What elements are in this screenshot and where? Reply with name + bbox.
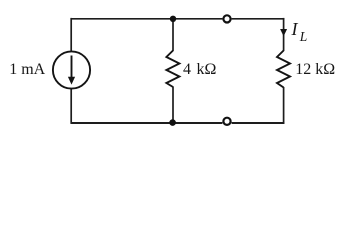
wire right branch upper xyxy=(283,18,285,51)
wire left branch upper xyxy=(70,18,72,52)
wire top left segment xyxy=(71,18,222,20)
wire middle branch upper xyxy=(172,19,174,51)
svg-text:L: L xyxy=(299,29,308,44)
resistor R2 12 kOhm zigzag xyxy=(277,51,290,88)
svg-text:4 kΩ: 4 kΩ xyxy=(183,61,217,78)
svg-text:1 mA: 1 mA xyxy=(9,61,45,78)
wire bottom left segment xyxy=(71,122,222,124)
svg-text:I: I xyxy=(291,19,299,39)
wire top right segment xyxy=(232,18,285,20)
wire middle branch lower xyxy=(172,87,174,124)
current source 1 mA xyxy=(53,51,90,88)
junction node top xyxy=(170,16,176,22)
terminal bottom open circle xyxy=(223,118,230,125)
wire bottom right segment xyxy=(232,122,285,124)
junction node bottom xyxy=(169,119,176,126)
resistor R1 4 kOhm zigzag xyxy=(166,51,179,88)
wire left branch lower xyxy=(70,88,72,124)
wire right branch lower xyxy=(283,87,285,124)
svg-text:12 kΩ: 12 kΩ xyxy=(295,61,335,78)
terminal top open circle xyxy=(223,15,230,22)
current arrow I_L xyxy=(280,29,287,36)
